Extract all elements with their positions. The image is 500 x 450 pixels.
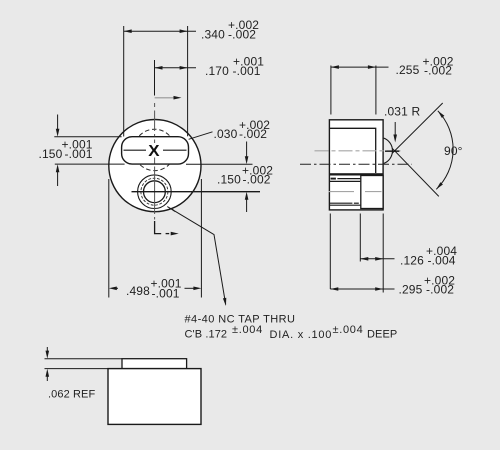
svg-text:±.004: ±.004 <box>333 324 364 336</box>
dim .498 extension lines <box>108 179 110 298</box>
v-point center tick <box>385 150 399 152</box>
leader to tap note <box>167 207 175 213</box>
dim .062 arrows <box>46 347 48 353</box>
svg-text:-.002: -.002 <box>426 283 454 297</box>
dim .150 right arrows <box>246 142 248 159</box>
section arrow bottom <box>155 221 162 234</box>
svg-text:.031 R: .031 R <box>384 105 420 119</box>
svg-text:DEEP: DEEP <box>367 329 397 341</box>
side gray tap centerline <box>329 191 355 193</box>
dim .031R arrow <box>394 122 396 137</box>
dim .150 right extension line <box>186 163 253 165</box>
bottom view big rect <box>108 369 201 425</box>
svg-text:.150: .150 <box>217 173 241 187</box>
v-groove 90 deg lines <box>392 148 439 196</box>
svg-text:.170: .170 <box>205 64 229 78</box>
svg-text:-.001: -.001 <box>152 287 180 301</box>
dim .170 line <box>155 67 197 69</box>
slot centerline segments around X <box>124 149 147 151</box>
svg-text:.062 REF: .062 REF <box>48 389 95 401</box>
svg-text:.498: .498 <box>126 284 150 298</box>
hidden pocket circle (dashed) <box>134 129 175 170</box>
dim .255 extension lines <box>330 66 332 115</box>
bottom view small rect <box>122 359 187 369</box>
dim .150 left arrows <box>57 115 59 132</box>
dim .126 line <box>360 258 394 260</box>
svg-text:.030: .030 <box>214 127 238 141</box>
side slot bottom thick line <box>330 173 383 175</box>
90 deg arc <box>436 111 453 190</box>
thread circle (dashed) <box>141 178 168 205</box>
dim .170 extension line <box>154 60 156 96</box>
svg-text:DIA. x .100: DIA. x .100 <box>270 329 333 341</box>
svg-text:-.002: -.002 <box>228 28 256 42</box>
svg-text:-.002: -.002 <box>243 173 271 187</box>
dim .126 extension lines <box>359 214 361 262</box>
side thread hidden lines <box>331 178 336 180</box>
section arrow top <box>155 97 177 99</box>
side gray slot centerline <box>315 150 401 152</box>
svg-text:±.004: ±.004 <box>232 324 263 336</box>
svg-text:-.002: -.002 <box>239 127 267 141</box>
svg-text:.126: .126 <box>400 254 424 268</box>
svg-text:X: X <box>148 143 160 160</box>
dim .295 line <box>330 288 394 290</box>
dim .062 extension lines <box>45 358 123 360</box>
side counterbore rect <box>361 176 383 209</box>
svg-text:.150: .150 <box>39 147 63 161</box>
side slot profile <box>330 128 376 173</box>
hole centerline horizontal <box>132 191 261 193</box>
svg-text:-.004: -.004 <box>428 254 456 268</box>
tapped hole counterbore circle <box>138 175 172 209</box>
front vertical centerline <box>154 103 156 220</box>
svg-text:90°: 90° <box>444 144 463 158</box>
svg-text:.340: .340 <box>201 28 225 42</box>
svg-text:C'B .172: C'B .172 <box>185 329 228 341</box>
svg-text:.295: .295 <box>399 283 423 297</box>
dim .030 leader <box>189 132 213 140</box>
dim .498 arrows <box>112 287 118 289</box>
dim .295 extension line <box>329 214 331 290</box>
dim .340 extension lines <box>123 26 125 137</box>
side black main centerline <box>300 163 412 165</box>
svg-text:-.002: -.002 <box>424 64 452 78</box>
svg-text:-.001: -.001 <box>233 64 261 78</box>
slot (rounded) <box>122 137 189 164</box>
side view body <box>329 120 383 210</box>
svg-text:.255: .255 <box>396 63 420 77</box>
dim .255 line <box>331 66 389 68</box>
dim .150 left extension lines <box>54 136 121 138</box>
v-groove point arc <box>384 138 393 164</box>
front view body circle <box>109 120 201 212</box>
dim .340 line <box>124 30 196 32</box>
svg-text:-.001: -.001 <box>65 147 93 161</box>
tap drill circle <box>144 181 166 203</box>
